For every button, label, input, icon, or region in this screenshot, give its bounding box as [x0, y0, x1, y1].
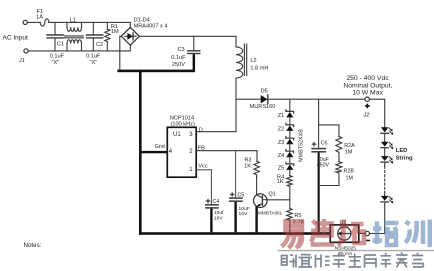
ground bus thick top [117, 70, 195, 73]
svg-text:Z3: Z3 [278, 140, 285, 146]
resistor R4 [287, 176, 293, 200]
wire FB to C5 [235, 151, 237, 198]
svg-text:10 W Max: 10 W Max [352, 90, 383, 97]
IC U1 NCP1014 [167, 127, 196, 177]
svg-text:R2B: R2B [344, 168, 355, 174]
LED D9 (string last) [369, 192, 393, 234]
zener chain tap wire [289, 99, 291, 111]
label R5 [293, 213, 305, 226]
label MMBT52XXB [298, 129, 304, 162]
capacitor C4 [206, 199, 218, 232]
zener Z3 [286, 137, 294, 152]
svg-text:Q1: Q1 [268, 191, 275, 197]
svg-text:0.1uF: 0.1uF [50, 53, 65, 59]
svg-text:1M: 1M [346, 175, 354, 181]
svg-text:1K: 1K [244, 164, 251, 170]
label R1 [111, 24, 119, 35]
svg-text:(100 kHz): (100 kHz) [171, 122, 195, 128]
svg-text:C6: C6 [321, 140, 328, 146]
label Q1 [258, 191, 283, 215]
label R2B [344, 168, 355, 181]
connector J2 negative terminal [365, 231, 369, 235]
capacitor C3 [188, 36, 200, 70]
svg-text:1.8 mH: 1.8 mH [250, 65, 268, 71]
wire DC output rail [139, 36, 236, 40]
ground bottom rail thick [139, 232, 330, 235]
label Notes [24, 242, 42, 249]
label R2A [344, 143, 355, 156]
zener Z4 [286, 150, 294, 164]
label U1 pins [155, 127, 208, 173]
svg-text:10uf: 10uf [214, 210, 224, 216]
wire L2 bottom / switch node to U1 drain [196, 79, 236, 132]
svg-text:0.1uF: 0.1uF [171, 55, 186, 61]
svg-text:J1: J1 [18, 58, 25, 64]
watermark text RF antenna experts [282, 252, 424, 267]
svg-text:"X": "X" [90, 60, 98, 66]
label LED String [396, 148, 413, 161]
svg-text:Notes:: Notes: [24, 242, 42, 249]
svg-text:L1: L1 [70, 17, 76, 23]
svg-text:D5: D5 [261, 89, 268, 95]
resistor R1 [105, 22, 110, 51]
label Z3 [278, 140, 285, 146]
svg-text:"X": "X" [52, 60, 60, 66]
watermark char yi (red) [282, 222, 303, 249]
label Z4 [278, 153, 285, 159]
watermark char xun (blue) [405, 220, 430, 248]
label D5 [250, 89, 276, 111]
connector J1 terminal bottom [24, 49, 28, 53]
svg-text:250V: 250V [172, 62, 185, 68]
wire bridge left vertex to ground bus [120, 36, 121, 70]
wire J1 top to fuse [28, 21, 41, 23]
transistor Q1 [253, 177, 268, 233]
label C6 [317, 140, 330, 168]
LED D7 (string second) [381, 142, 393, 156]
fuse F1 [40, 19, 49, 26]
svg-text:LED: LED [396, 148, 408, 154]
svg-text:C2: C2 [96, 42, 103, 48]
zener Z2 [286, 123, 294, 138]
resistor R2B [336, 162, 342, 174]
svg-text:16V: 16V [239, 211, 248, 217]
wire R2 branch top [319, 125, 339, 136]
svg-text:0.1uF: 0.1uF [86, 53, 101, 59]
wire J2 negative to U2 [359, 233, 365, 235]
svg-text:C1: C1 [57, 42, 64, 48]
capacitor C5 [230, 193, 242, 232]
wire R2 branch bottom [319, 173, 339, 186]
label C3 [171, 47, 186, 68]
LED D6 (string first) [381, 127, 393, 141]
svg-text:MMBTA06L: MMBTA06L [258, 210, 283, 215]
ground thick vertical [139, 70, 142, 235]
label NCP1014 [170, 116, 195, 128]
label C1 [50, 42, 65, 66]
inductor L2 [236, 41, 247, 79]
label J1 [18, 58, 25, 64]
resistor R5 [287, 200, 293, 232]
label L2 [250, 58, 268, 71]
watermark divider line [278, 250, 434, 252]
wire switch node to D5 anode [236, 98, 261, 100]
label D1-D4 [134, 18, 168, 30]
svg-text:D: D [199, 127, 203, 133]
wire dashed LED string continuation [384, 166, 386, 192]
svg-text:250 - 400 Vdc: 250 - 400 Vdc [346, 75, 389, 82]
svg-text:R5: R5 [294, 213, 301, 219]
svg-text:16V: 16V [214, 215, 223, 221]
wire U1 pin 1 Vcc to C4 [197, 170, 212, 204]
label 250-400Vdc output [343, 75, 392, 96]
svg-text:Z5: Z5 [278, 166, 285, 172]
svg-text:1A: 1A [36, 15, 43, 21]
LED D8 (string third) [381, 156, 393, 166]
label J2 plus [362, 104, 370, 119]
label L1 [70, 17, 76, 23]
minus sign J2 negative [366, 240, 370, 242]
label Z5 [278, 166, 285, 172]
svg-text:1M: 1M [111, 29, 119, 35]
svg-text:MMBT52XXB: MMBT52XXB [298, 129, 304, 162]
regulator U2 NSI45025 [330, 225, 359, 242]
wire C6 branch tap [318, 99, 320, 148]
label F1 [36, 9, 43, 20]
capacitor C1 [47, 22, 63, 51]
watermark char pei (blue) [373, 222, 399, 246]
svg-text:AC Input: AC Input [3, 34, 28, 41]
svg-text:450V: 450V [317, 162, 330, 168]
zener Z5 [286, 162, 294, 175]
svg-text:C4: C4 [213, 199, 220, 205]
svg-text:Z4: Z4 [278, 153, 285, 159]
svg-text:R2A: R2A [344, 143, 355, 149]
svg-text:MURS160: MURS160 [250, 104, 276, 110]
wire U1 pin 2 FB [197, 150, 257, 152]
inductor L1 common-mode choke [64, 22, 83, 51]
svg-text:Z2: Z2 [278, 127, 285, 133]
watermark char di (red) [311, 219, 335, 245]
svg-text:Vcc: Vcc [198, 163, 208, 169]
svg-text:L2: L2 [250, 58, 256, 64]
resistor R2A [336, 136, 342, 152]
wire J2 to LED string top [369, 99, 384, 127]
svg-text:U1: U1 [173, 132, 181, 138]
svg-text:Gnd: Gnd [155, 144, 165, 150]
watermark char tuo (red) [338, 220, 364, 246]
label U2 [335, 220, 357, 257]
zener Z1 [286, 110, 294, 125]
diode D5 [261, 95, 268, 103]
label Z1 [278, 113, 285, 119]
svg-text:J2: J2 [362, 113, 370, 119]
svg-text:String: String [396, 155, 413, 161]
wire R4/R5 junction to Q1 base [267, 199, 290, 201]
wire D5 cathode to J2 plus [268, 98, 365, 100]
capacitor C6 [312, 142, 325, 232]
label C5 [237, 193, 249, 217]
label R4 [277, 175, 284, 186]
svg-text:FB: FB [198, 145, 205, 151]
wire R2A to R2B [338, 152, 340, 161]
ground thick branch to U1 pin 4 [139, 151, 168, 153]
svg-text:Z1: Z1 [278, 113, 285, 119]
diode bridge D1-D4 [121, 27, 139, 45]
svg-text:C5: C5 [237, 193, 244, 199]
label R3 [244, 157, 251, 169]
connector J2 positive terminal [365, 97, 369, 101]
svg-text:1K: 1K [277, 179, 284, 185]
svg-text:C3: C3 [177, 47, 184, 53]
label C2 [86, 42, 103, 66]
wire top AC rail [49, 22, 130, 27]
svg-text:Nominal Output,: Nominal Output, [343, 82, 392, 89]
label C4 [213, 199, 225, 222]
resistor R3 [254, 151, 260, 177]
svg-text:MRA4007 x 4: MRA4007 x 4 [134, 23, 168, 29]
capacitor C2 [87, 22, 103, 51]
svg-text:R3: R3 [244, 157, 251, 163]
svg-text:1M: 1M [345, 150, 353, 156]
label Z2 [278, 127, 285, 133]
wire bottom AC rail [28, 45, 130, 51]
connector J1 terminal top [23, 20, 27, 24]
label AC Input [3, 34, 28, 41]
